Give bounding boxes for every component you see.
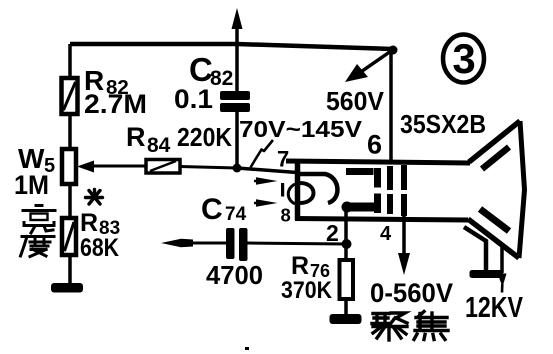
svg-text:0.1: 0.1 xyxy=(174,84,213,114)
svg-text:6: 6 xyxy=(367,130,382,160)
svg-text:84: 84 xyxy=(147,134,171,157)
svg-text:3: 3 xyxy=(452,35,475,82)
svg-text:R: R xyxy=(126,122,146,152)
svg-text:2.7M: 2.7M xyxy=(84,89,147,119)
svg-text:220K: 220K xyxy=(177,122,232,152)
svg-text:2: 2 xyxy=(326,220,339,246)
svg-text:70V~145V: 70V~145V xyxy=(239,116,363,142)
svg-text:C: C xyxy=(201,193,223,226)
svg-text:68K: 68K xyxy=(80,234,119,262)
svg-text:35SX2B: 35SX2B xyxy=(400,109,486,139)
svg-text:7: 7 xyxy=(277,147,289,172)
svg-text:12KV: 12KV xyxy=(465,292,524,324)
svg-text:4: 4 xyxy=(380,223,392,245)
svg-text:560V: 560V xyxy=(326,86,385,116)
svg-text:4700: 4700 xyxy=(206,260,263,290)
svg-text:1M: 1M xyxy=(14,170,49,200)
svg-text:82: 82 xyxy=(210,67,233,90)
svg-text:R: R xyxy=(291,252,309,280)
svg-text:8: 8 xyxy=(281,205,291,226)
svg-text:74: 74 xyxy=(225,204,247,225)
svg-text:370K: 370K xyxy=(281,277,333,304)
svg-text:0-560V: 0-560V xyxy=(370,278,453,308)
svg-text:R: R xyxy=(80,209,98,237)
